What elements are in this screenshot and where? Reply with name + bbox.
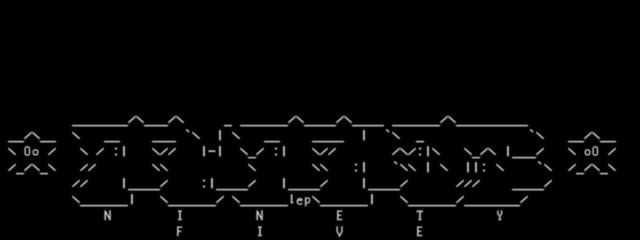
caption NINETY [104,210,502,220]
art row 1 - letter tops [72,115,528,126]
art row 6 - letter baselines and lep signature [72,194,527,206]
art row 2 - stars top and letter bodies [8,130,616,143]
art row 4 - letter diagonals [8,162,615,175]
caption FIVE [177,226,422,236]
art row 5 - letter lower edges [72,178,551,190]
art row 3 - star eyes and letter middles [8,146,615,158]
